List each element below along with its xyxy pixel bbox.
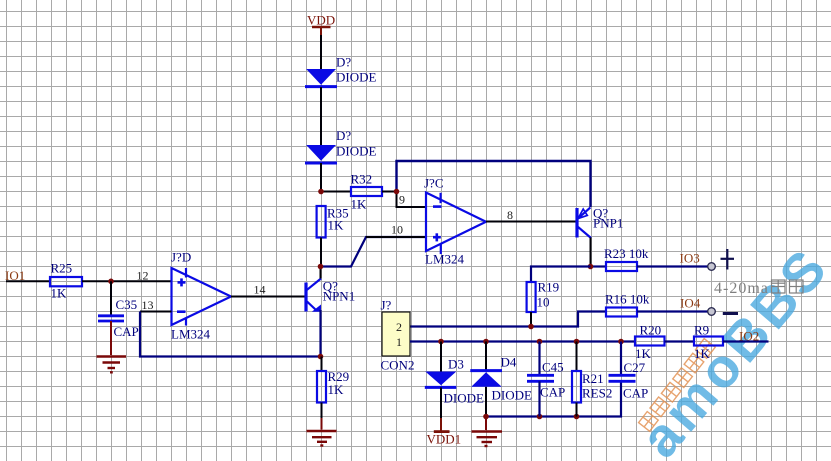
svg-text:PNP1: PNP1: [593, 216, 623, 231]
wire VDD to D1: [320, 35, 322, 70]
resistor R32: [351, 172, 383, 212]
svg-text:VDD: VDD: [307, 13, 335, 28]
wire pin10 link: [321, 237, 427, 267]
svg-text:C35: C35: [116, 297, 138, 312]
svg-text:DIODE: DIODE: [336, 144, 376, 159]
wire feedback op-amp D: [140, 312, 321, 357]
svg-text:14: 14: [254, 283, 266, 297]
wire R29 to ground: [321, 403, 323, 419]
op-amp U?C LM324: [426, 193, 486, 255]
wire R20 to R9: [665, 340, 695, 342]
wire pin13 stub: [140, 311, 172, 313]
wire R21 bottom: [576, 403, 578, 417]
svg-text:CAP: CAP: [623, 386, 648, 401]
wire C27 top: [620, 342, 622, 376]
junction D4 bottom: [483, 414, 489, 420]
watermark amoBBS: [628, 235, 831, 461]
wire pin14: [231, 296, 306, 298]
svg-text:1K: 1K: [351, 197, 368, 212]
junction R21 top: [574, 339, 580, 345]
svg-text:R16 10k: R16 10k: [605, 292, 650, 307]
svg-text:D?: D?: [336, 128, 351, 143]
wire D3 drop: [440, 342, 442, 373]
svg-text:4-20ma: 4-20ma: [714, 280, 769, 297]
junction node R32 left: [318, 189, 324, 195]
junction D3 top: [438, 339, 444, 345]
svg-text:8: 8: [507, 208, 513, 222]
svg-text:DIODE: DIODE: [336, 70, 376, 85]
svg-text:R19: R19: [538, 280, 560, 295]
wire node to R23: [591, 265, 607, 267]
wire to R29: [321, 357, 323, 372]
wire R9 to IO2: [723, 340, 769, 342]
wire R16 to IO4: [637, 310, 708, 312]
wire D4 drop: [485, 342, 487, 372]
diode D? (lower): [305, 128, 376, 163]
resistor R25: [50, 261, 82, 301]
capacitor C35: [98, 297, 139, 339]
wire R23 to IO3: [637, 265, 708, 267]
resistor R29: [317, 369, 349, 403]
wire D2 to node: [320, 163, 322, 193]
wire pin9: [397, 192, 427, 207]
junction node collector NPN: [318, 264, 324, 270]
svg-text:J?: J?: [381, 298, 392, 313]
wire C45 top: [538, 342, 540, 376]
svg-text:1K: 1K: [694, 346, 711, 361]
wire pin8: [486, 221, 576, 223]
wire R25 to node: [82, 280, 111, 282]
wire PNP collector down: [590, 238, 592, 269]
capacitor C27: [609, 360, 649, 401]
wire NPN emitter down: [319, 310, 321, 358]
junction R19 bottom: [528, 324, 534, 330]
svg-text:1K: 1K: [328, 382, 345, 397]
power symbol VDD1: [427, 432, 462, 447]
capacitor C45: [527, 360, 565, 400]
svg-text:10: 10: [537, 295, 550, 310]
wire C45 bottom: [538, 381, 540, 416]
wire node down to C35: [110, 281, 112, 315]
svg-text:D?: D?: [336, 55, 351, 70]
wire D4 node to ground: [485, 417, 487, 431]
transistor Q? NPN1: [306, 279, 355, 312]
svg-text:RES2: RES2: [582, 386, 612, 401]
svg-text:C45: C45: [542, 360, 564, 375]
svg-text:R9: R9: [694, 323, 709, 338]
diode D4: [470, 355, 532, 403]
svg-text:D3: D3: [448, 357, 464, 372]
svg-text:IO3: IO3: [680, 251, 700, 266]
wire pin1 net bus: [410, 340, 635, 342]
svg-text:CAP: CAP: [540, 385, 565, 400]
svg-text:LM324: LM324: [171, 327, 211, 342]
svg-text:LM324: LM324: [425, 252, 465, 267]
svg-text:10: 10: [391, 223, 403, 237]
diode D3: [425, 357, 484, 406]
wire IO1 to R25: [6, 280, 50, 282]
svg-text:C27: C27: [624, 360, 646, 375]
wire node to R19: [531, 267, 591, 283]
svg-text:IO4: IO4: [680, 296, 701, 311]
wire C35 to ground: [110, 321, 112, 355]
resistor R23: [604, 246, 649, 271]
wire pin2 net: [410, 312, 606, 327]
svg-text:J?C: J?C: [424, 176, 444, 191]
svg-text:DIODE: DIODE: [444, 391, 484, 406]
svg-text:12: 12: [137, 269, 149, 283]
junction node R25: [108, 279, 114, 285]
wire NPN collector up: [320, 268, 322, 279]
svg-text:1K: 1K: [328, 218, 345, 233]
resistor R20: [635, 323, 665, 362]
wire R35 bottom to node: [320, 238, 322, 268]
svg-text:1K: 1K: [51, 286, 68, 301]
svg-text:R25: R25: [51, 261, 73, 276]
junction node 9: [394, 189, 400, 195]
svg-text:NPN1: NPN1: [323, 289, 356, 304]
svg-text:J?D: J?D: [171, 250, 191, 265]
svg-text:R32: R32: [351, 172, 373, 187]
wire R32 to node9: [382, 191, 397, 193]
svg-text:CAP: CAP: [114, 324, 139, 339]
wire R19 bottom: [530, 312, 532, 328]
resistor R35: [317, 206, 349, 238]
ground under C35: [97, 357, 127, 373]
plus mark: [721, 249, 735, 270]
svg-text:1K: 1K: [635, 346, 652, 361]
pad IO4: [708, 308, 716, 316]
ground under R29: [307, 431, 337, 446]
wire D1 to D2: [320, 87, 322, 146]
svg-text:2: 2: [396, 320, 402, 334]
svg-text:CON2: CON2: [381, 358, 415, 373]
junction D4 top: [483, 339, 489, 345]
pad IO3: [708, 263, 716, 271]
resistor R9: [694, 323, 723, 362]
svg-text:1: 1: [396, 335, 402, 349]
junction C45 top: [537, 339, 543, 345]
power symbol VDD: [307, 13, 335, 36]
junction R21 bottom: [574, 414, 580, 420]
wire R21 top: [576, 342, 578, 372]
svg-text:VDD1: VDD1: [427, 432, 462, 447]
transistor Q? PNP1: [577, 206, 623, 239]
wire top feedback loop: [397, 161, 591, 207]
svg-text:DIODE: DIODE: [492, 388, 532, 403]
wire node to R32: [320, 191, 351, 193]
wire node to pin12: [111, 280, 172, 282]
svg-text:D4: D4: [501, 355, 517, 370]
wire gnd bus2: [486, 381, 621, 417]
svg-text:R20: R20: [640, 323, 662, 338]
watermark chinese 阿莫电子论坛: [639, 339, 716, 432]
diode D? (upper): [305, 55, 376, 87]
minus mark: [723, 312, 738, 315]
resistor R19: [527, 280, 560, 313]
wire D3 to VDD1: [440, 387, 442, 418]
svg-text:R23 10k: R23 10k: [604, 246, 649, 261]
svg-text:13: 13: [142, 298, 154, 312]
svg-text:R21: R21: [582, 371, 604, 386]
ground under D4: [472, 432, 503, 447]
wire D4 to gnd bus: [485, 387, 487, 418]
junction node emitter: [318, 354, 324, 360]
resistor R16: [605, 292, 650, 317]
svg-text:9: 9: [399, 193, 405, 207]
connector J? CON2: [381, 298, 415, 373]
junction C45 bottom: [537, 414, 543, 420]
op-amp U?D LM324: [172, 268, 232, 326]
junction node collector: [588, 264, 594, 270]
resistor R21: [572, 371, 612, 403]
svg-text:IO2: IO2: [739, 329, 759, 344]
junction C27 top: [618, 339, 624, 345]
